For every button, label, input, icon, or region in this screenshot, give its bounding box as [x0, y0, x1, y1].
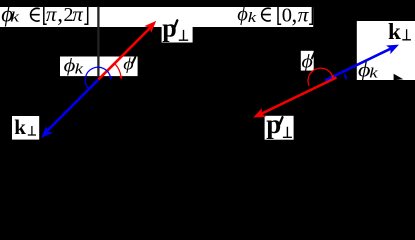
svg-text:k: k	[369, 64, 378, 80]
svg-text:π: π	[46, 2, 57, 26]
svg-text:k: k	[388, 19, 401, 44]
svg-text:π: π	[298, 3, 310, 27]
svg-text:ϕ: ϕ	[302, 52, 313, 72]
svg-text:ϕ: ϕ	[123, 55, 134, 73]
svg-text:k: k	[10, 9, 19, 25]
svg-text:,: ,	[292, 2, 298, 27]
svg-text:k: k	[14, 115, 26, 139]
svg-text:k: k	[248, 9, 257, 26]
svg-text:,: ,	[57, 1, 63, 26]
svg-text:ϕ: ϕ	[237, 3, 248, 25]
svg-text:π: π	[72, 2, 83, 26]
svg-text:0: 0	[282, 5, 292, 27]
svg-text:k: k	[75, 60, 84, 76]
